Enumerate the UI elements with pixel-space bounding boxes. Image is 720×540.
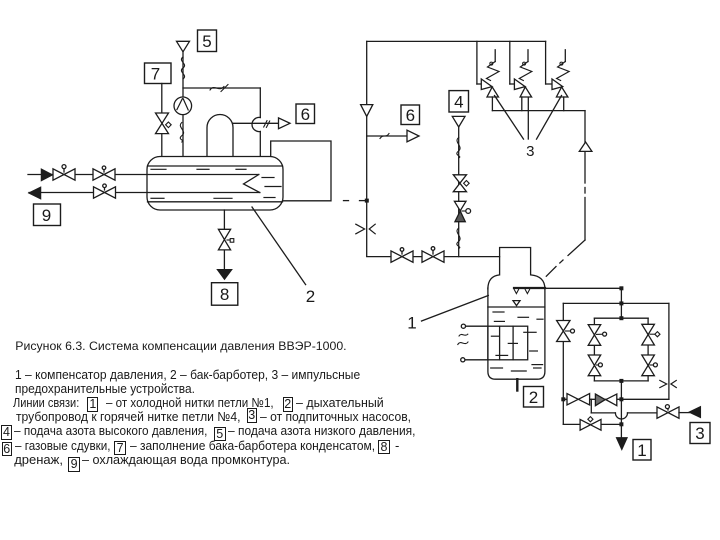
svg-text:6: 6 xyxy=(406,106,415,125)
svg-text:2: 2 xyxy=(306,287,315,306)
svg-text:3: 3 xyxy=(526,143,534,160)
svg-text:2: 2 xyxy=(529,388,538,407)
svg-text:9: 9 xyxy=(42,206,51,225)
svg-text:5: 5 xyxy=(202,32,211,51)
svg-text:3: 3 xyxy=(695,424,704,443)
svg-text:6: 6 xyxy=(301,105,310,124)
svg-text:8: 8 xyxy=(220,285,229,304)
svg-text:7: 7 xyxy=(151,65,160,84)
svg-text:4: 4 xyxy=(454,93,463,112)
svg-text:1: 1 xyxy=(637,441,646,460)
svg-text:1: 1 xyxy=(407,313,416,332)
